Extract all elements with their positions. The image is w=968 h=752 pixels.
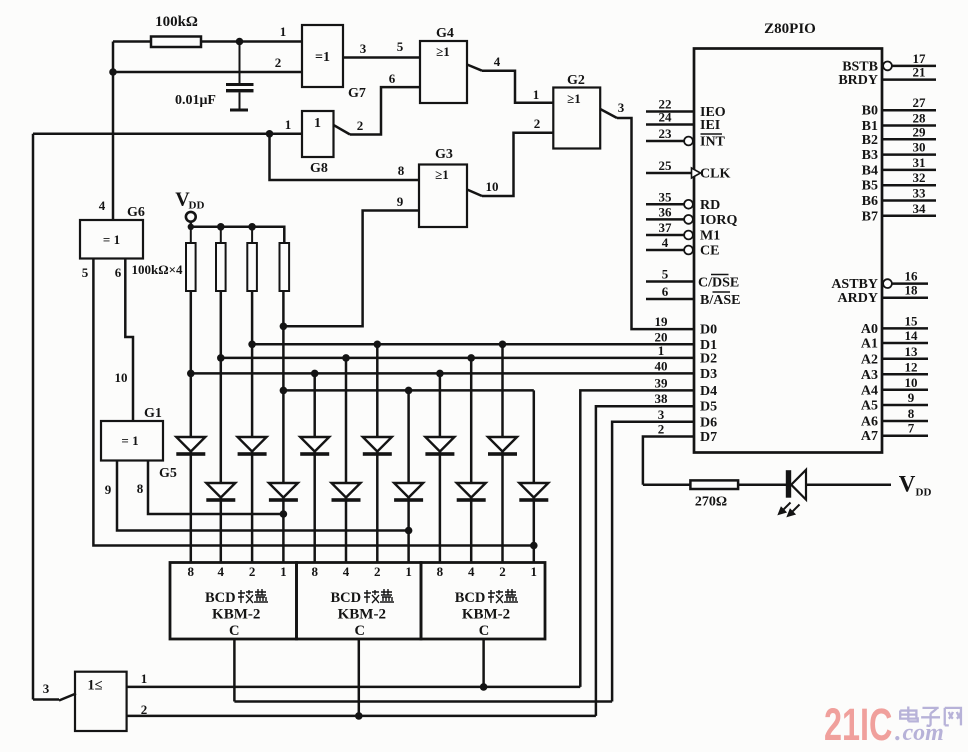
keypad2 label 拨盘 glyphs	[364, 589, 394, 603]
junction junction D2 col6	[342, 354, 350, 362]
svg-text:32: 32	[913, 170, 926, 185]
wire column wire 2 (keypad pin)	[220, 291, 223, 563]
LED D13 cathode bar	[786, 470, 791, 498]
svg-text:RD: RD	[700, 198, 720, 213]
wire G1 pin10 output up to G6 pin6	[125, 259, 133, 422]
wire node A top wire R1 to G7 pin1	[201, 40, 302, 43]
wire column wire 8 (keypad pin)	[407, 390, 410, 562]
junction junction at G8 input node	[266, 130, 274, 138]
wire PIO pin 13 A2 stub	[882, 358, 928, 361]
svg-text:21: 21	[913, 65, 926, 80]
diode D3b lower row col6	[332, 483, 361, 502]
svg-text:A1: A1	[861, 337, 878, 352]
wire bottom bus1 gate input1	[127, 686, 581, 689]
svg-text:21IC: 21IC	[824, 701, 892, 750]
svg-text:5: 5	[397, 39, 404, 54]
svg-text:14: 14	[905, 328, 919, 343]
svg-text:1: 1	[405, 564, 412, 579]
svg-text:16: 16	[905, 269, 919, 284]
resistor RP3 100k pull-up	[247, 227, 257, 291]
diode D3a upper row col5	[300, 437, 329, 456]
svg-text:KBM-2: KBM-2	[462, 607, 510, 623]
svg-text:A2: A2	[861, 352, 878, 367]
svg-text:C/DSE: C/DSE	[698, 276, 739, 291]
svg-text:Z80PIO: Z80PIO	[764, 21, 816, 37]
wire long node wire from left rail to G8 pin1	[33, 133, 302, 136]
junction junction D3 col1	[187, 370, 195, 378]
BCD keypad KBM-2 unit 1 box	[170, 563, 297, 640]
keypad1 label 拨盘 glyphs	[238, 589, 268, 603]
svg-text:8: 8	[398, 163, 405, 178]
svg-text:4: 4	[494, 54, 501, 69]
logo dianziwang glyphs	[900, 707, 961, 726]
svg-text:BCD: BCD	[455, 590, 486, 606]
wire PIO pin 4 CE stub	[646, 249, 684, 252]
wire G1 pin8 to column 4	[148, 461, 283, 515]
wire data row D1 (pin20)	[252, 343, 694, 346]
svg-text:≥1: ≥1	[567, 91, 581, 106]
wire PIO pin38 D5 stub with drop to bottom bus3	[596, 406, 694, 716]
wire G3 pin10 to G2 pin2	[482, 133, 553, 196]
svg-text:30: 30	[913, 140, 926, 155]
wire PIO pin 30 B3 stub	[882, 153, 936, 156]
svg-text:B7: B7	[862, 209, 878, 224]
svg-text:IORQ: IORQ	[700, 213, 737, 228]
svg-text:G7: G7	[348, 86, 366, 101]
wire keypad1 common stub down	[233, 639, 236, 702]
svg-text:4: 4	[343, 564, 350, 579]
junction junction D3 col5	[311, 370, 319, 378]
G2 output diagonal pin3	[600, 109, 617, 118]
wire wire LED to VDD2	[806, 483, 891, 486]
wire PIO pin3 D6 stub with drop to bottom bus2	[612, 422, 694, 702]
svg-text:27: 27	[913, 95, 927, 110]
svg-text:≥1: ≥1	[435, 167, 449, 182]
svg-text:1: 1	[280, 564, 287, 579]
wire PIO pin 25 CLK stub	[646, 172, 694, 175]
junction junction bus R1	[188, 224, 194, 230]
wire PIO pin 27 B0 stub	[882, 109, 936, 112]
diode D1b lower row col2	[206, 483, 235, 502]
wire wire R2 to LED	[738, 483, 786, 486]
xor gate G6 box	[80, 220, 143, 259]
svg-text:29: 29	[913, 124, 927, 139]
wire PIO pin 32 B5 stub	[882, 184, 936, 187]
svg-text:100kΩ×4: 100kΩ×4	[131, 262, 183, 277]
svg-text:≥1: ≥1	[436, 44, 450, 59]
junction node A dot at capacitor tap	[236, 38, 244, 46]
wire column wire 10 (keypad pin)	[470, 358, 473, 563]
svg-text:8: 8	[908, 406, 915, 421]
svg-text:KBM-2: KBM-2	[212, 607, 260, 623]
wire PIO pin 7 A7 stub	[882, 434, 928, 437]
svg-text:3: 3	[618, 100, 625, 115]
wire column wire 5 (keypad pin)	[313, 373, 316, 562]
diode D2b lower row col4	[269, 483, 298, 502]
wire PIO pin 37 M1 stub	[646, 234, 684, 237]
svg-text:2: 2	[374, 564, 381, 579]
svg-text:2: 2	[141, 702, 148, 717]
junction junction keypad3 common on bus1	[480, 683, 488, 691]
svg-text:13: 13	[905, 344, 919, 359]
junction junction G3 pin9 line on column 4	[280, 323, 288, 331]
wire column wire 6 (keypad pin)	[345, 358, 348, 563]
PIO pin 23 INT bubble	[684, 137, 693, 146]
PIO pin 4 CE bubble	[684, 246, 693, 255]
xor gate G7 box	[302, 25, 343, 87]
svg-text:10: 10	[115, 370, 128, 385]
junction junction G1 pin8 line on column 4	[280, 510, 288, 518]
wire PIO pin 31 B4 stub	[882, 169, 936, 172]
svg-text:8: 8	[137, 481, 144, 496]
svg-text:12: 12	[905, 359, 918, 374]
wire column wire 4 (keypad pin)	[282, 291, 285, 563]
svg-text:C: C	[479, 623, 489, 639]
PIO pin 25 CLK wedge	[692, 168, 701, 178]
svg-text:1: 1	[285, 117, 292, 132]
wire PIO pin 8 A6 stub	[882, 420, 928, 423]
svg-text:2: 2	[658, 422, 665, 437]
svg-text:8: 8	[188, 564, 195, 579]
wire PIO pin 15 A0 stub	[882, 327, 928, 330]
wire G9 output to left rail	[33, 698, 59, 701]
buffer gate G8 box	[302, 111, 334, 157]
wire column wire 3 (keypad pin)	[251, 291, 254, 563]
BCD keypad KBM-2 unit 3 box	[421, 563, 545, 640]
wire PIO pin 14 A1 stub	[882, 342, 928, 345]
BCD keypad KBM-2 unit 2 box	[297, 563, 422, 640]
wire PIO pin 35 RD stub	[646, 203, 684, 206]
wire PIO pin 6 B/ASE stub	[646, 298, 694, 301]
wire VDD stem	[190, 222, 193, 227]
svg-text:M1: M1	[700, 229, 720, 244]
wire PIO pin 10 A4 stub	[882, 389, 928, 392]
svg-text:A7: A7	[861, 429, 878, 444]
IC U1 Z80PIO body	[694, 49, 882, 453]
resistor RP1 100k pull-up	[186, 227, 196, 291]
svg-text:2: 2	[275, 55, 282, 70]
LED D13 emission arrows	[779, 503, 800, 516]
wire R1 left lead + node to G6 pin4 corner	[113, 40, 151, 43]
svg-text:3: 3	[43, 681, 50, 696]
junction junction D1 col7	[374, 341, 382, 349]
svg-text:3: 3	[658, 407, 665, 422]
svg-text:G1: G1	[144, 406, 162, 421]
svg-text:B2: B2	[862, 133, 878, 148]
wire PIO pin 12 A3 stub	[882, 373, 928, 376]
svg-text:CE: CE	[700, 244, 719, 259]
wire PIO pin2 D7 stub with drop to LED resistor	[643, 437, 694, 485]
svg-text:DD: DD	[916, 486, 932, 498]
svg-text:B4: B4	[862, 163, 878, 178]
PIO pin 16 ASTBY bubble	[883, 279, 892, 288]
junction junction D1 col3	[248, 341, 256, 349]
svg-text:.com: .com	[895, 717, 944, 746]
PIO pin 35 RD bubble	[684, 200, 693, 209]
wire column wire 12 (keypad pin)	[533, 390, 536, 562]
svg-text:37: 37	[659, 220, 673, 235]
svg-text:1: 1	[531, 564, 538, 579]
wire bottom bus2 keypad1 common to D6	[234, 700, 612, 703]
wire G2 pin3 down to PIO D0 pin19	[617, 118, 694, 329]
svg-text:D0: D0	[700, 323, 717, 338]
svg-text:0.01μF: 0.01μF	[175, 93, 216, 108]
svg-text:A6: A6	[861, 415, 878, 430]
wire column wire 9 (keypad pin)	[439, 373, 442, 562]
wire left rail vertical	[32, 134, 35, 700]
svg-text:B5: B5	[862, 179, 878, 194]
wire data row D4 matrix segment	[283, 389, 533, 392]
svg-text:A5: A5	[861, 399, 878, 414]
svg-text:IEI: IEI	[700, 118, 720, 133]
svg-text:3: 3	[360, 41, 367, 56]
svg-text:CLK: CLK	[700, 167, 730, 182]
svg-text:ASTBY: ASTBY	[831, 277, 878, 292]
svg-text:36: 36	[659, 204, 673, 219]
wire pull-up bus	[191, 227, 284, 243]
PIO pin 36 IORQ bubble	[684, 215, 693, 224]
or gate G3 box	[419, 165, 467, 228]
capacitor C1 0.01uF	[226, 42, 254, 112]
svg-text:1: 1	[533, 87, 540, 102]
junction junction D3 col9	[436, 370, 444, 378]
wire PIO pin 28 B1 stub	[882, 124, 936, 127]
svg-text:B0: B0	[862, 104, 878, 119]
svg-text:39: 39	[655, 375, 669, 390]
svg-text:DD: DD	[189, 199, 205, 211]
svg-text:8: 8	[437, 564, 444, 579]
svg-text:1: 1	[280, 24, 287, 39]
wire G1 pin9 to column 8	[117, 461, 409, 531]
svg-text:B1: B1	[862, 119, 878, 134]
svg-text:270Ω: 270Ω	[695, 495, 727, 510]
svg-text:2: 2	[499, 564, 506, 579]
svg-text:31: 31	[913, 155, 926, 170]
svg-text:1: 1	[314, 116, 321, 131]
wire PIO pin 36 IORQ stub	[646, 218, 684, 221]
svg-text:C: C	[355, 623, 365, 639]
svg-text:9: 9	[397, 194, 404, 209]
svg-text:2: 2	[534, 116, 541, 131]
svg-text:24: 24	[659, 110, 673, 125]
svg-text:9: 9	[105, 482, 112, 497]
diode D5b lower row col10	[457, 483, 486, 502]
G9 output diagonal pin3	[59, 694, 76, 701]
wire PIO pin 29 B2 stub	[882, 138, 936, 141]
svg-text:1: 1	[141, 671, 148, 686]
wire PIO pin 34 B7 stub	[882, 215, 936, 218]
diode D6b lower row col12	[519, 483, 548, 502]
G3 output diagonal pin10	[467, 190, 482, 197]
svg-text:33: 33	[913, 186, 927, 201]
G4 output diagonal pin4	[467, 65, 482, 71]
wire vertical from node corner down to G6 pin 4	[112, 42, 115, 221]
svg-text:INT: INT	[700, 135, 726, 150]
svg-text:5: 5	[662, 267, 669, 282]
wire G3 pin9 wire from pull-up column 4	[283, 211, 419, 327]
junction junction D2 col10	[467, 354, 475, 362]
resistor RP4 100k pull-up	[280, 227, 290, 291]
wire G8 pin2 to G4 pin6	[350, 87, 420, 134]
svg-text:BCD: BCD	[330, 590, 361, 606]
wire data row D2 (pin1)	[221, 357, 694, 360]
wire wire D7 to resistor R2	[643, 483, 691, 486]
svg-text:G4: G4	[436, 26, 454, 41]
svg-text:9: 9	[908, 390, 915, 405]
svg-text:B/ASE: B/ASE	[700, 293, 740, 308]
svg-text:A4: A4	[861, 383, 878, 398]
wire PIO pin 16 ASTBY stub	[892, 282, 928, 285]
wire G7 output pin3 to G4 pin5	[343, 56, 420, 59]
wire column wire 1 (keypad pin)	[190, 291, 193, 563]
svg-text:2: 2	[249, 564, 256, 579]
svg-text:5: 5	[82, 265, 89, 280]
wire bottom bus3 gate input2	[127, 715, 596, 718]
wire PIO pin 17 BSTB stub	[892, 65, 936, 68]
junction junction D4 col8	[405, 387, 413, 395]
svg-text:G2: G2	[567, 73, 585, 88]
svg-text:D3: D3	[700, 367, 717, 382]
svg-text:2: 2	[357, 118, 364, 133]
svg-text:B3: B3	[862, 148, 878, 163]
junction junction D2 col2	[217, 354, 225, 362]
svg-text:4: 4	[218, 564, 225, 579]
VDD terminal circle	[186, 212, 196, 222]
PIO pin 37 M1 bubble	[684, 231, 693, 240]
svg-text:=1: =1	[315, 50, 330, 65]
svg-text:V: V	[899, 472, 916, 497]
svg-text:D7: D7	[700, 430, 717, 445]
LED D13 triangle	[791, 470, 806, 500]
junction junction keypad2 common on bus2	[355, 712, 363, 720]
svg-text:G5: G5	[159, 466, 177, 481]
resistor R2 270Ω body	[690, 480, 738, 489]
wire PIO pin39 D4 stub with drop to bottom bus1	[580, 390, 694, 687]
svg-text:6: 6	[389, 71, 396, 86]
wire G4 pin4 to G2 pin1	[482, 71, 553, 103]
svg-text:23: 23	[659, 126, 673, 141]
svg-text:D5: D5	[700, 400, 717, 415]
svg-text:40: 40	[655, 358, 668, 373]
svg-text:25: 25	[659, 158, 673, 173]
svg-text:C: C	[229, 623, 239, 639]
wire PIO pin 33 B6 stub	[882, 199, 936, 202]
diode D5a upper row col9	[425, 437, 454, 456]
svg-text:BCD: BCD	[205, 590, 236, 606]
svg-text:1≤: 1≤	[87, 678, 102, 694]
junction junction G1 pin9 line on column 8	[405, 527, 413, 535]
svg-text:6: 6	[662, 284, 669, 299]
wire keypad2 common stub down	[358, 639, 361, 716]
G8 output diagonal pin2	[334, 125, 351, 135]
resistor R1 100kΩ body	[151, 37, 201, 48]
svg-text:1: 1	[658, 343, 665, 358]
or gate G9 (bottom) box	[75, 672, 127, 731]
junction junction D4 col4	[280, 387, 288, 395]
svg-text:19: 19	[655, 314, 669, 329]
svg-text:= 1: = 1	[121, 433, 138, 448]
svg-text:18: 18	[905, 283, 919, 298]
xor gate G1 box	[101, 421, 163, 461]
svg-text:D2: D2	[700, 351, 717, 366]
svg-text:10: 10	[486, 179, 499, 194]
wire PIO pin 18 ARDY stub	[882, 296, 928, 299]
svg-text:7: 7	[908, 421, 915, 436]
junction junction bus R3	[248, 223, 256, 231]
overline on INT	[701, 133, 723, 135]
svg-text:8: 8	[311, 564, 318, 579]
svg-text:10: 10	[905, 375, 918, 390]
svg-text:4: 4	[662, 235, 669, 250]
svg-text:G6: G6	[127, 205, 145, 220]
svg-text:6: 6	[115, 265, 122, 280]
wire column wire 7 (keypad pin)	[376, 344, 379, 562]
svg-text:ARDY: ARDY	[838, 291, 878, 306]
svg-text:D6: D6	[700, 415, 717, 430]
svg-text:= 1: = 1	[103, 232, 120, 247]
wire branch from G8 node down to G3 pin8	[270, 134, 420, 180]
diode D6a upper row col11	[488, 437, 517, 456]
resistor RP2 100k pull-up	[216, 227, 226, 291]
svg-text:35: 35	[659, 189, 673, 204]
svg-text:B6: B6	[862, 194, 878, 209]
svg-text:BRDY: BRDY	[838, 73, 878, 88]
svg-text:4: 4	[468, 564, 475, 579]
svg-text:38: 38	[655, 391, 669, 406]
wire wire to G7 pin 2	[113, 71, 302, 74]
or gate G4 box	[420, 41, 467, 103]
svg-text:34: 34	[913, 201, 927, 216]
or gate G2 box	[553, 88, 600, 149]
wire column wire 11 (keypad pin)	[501, 344, 504, 562]
svg-text:A3: A3	[861, 368, 878, 383]
wire PIO pin 22 IEO stub	[646, 110, 694, 113]
junction junction at G7 pin2 branch	[109, 68, 117, 76]
wire PIO pin 21 BRDY stub	[882, 78, 936, 81]
svg-text:100kΩ: 100kΩ	[155, 14, 198, 30]
PIO pin 17 BSTB bubble	[883, 62, 892, 71]
svg-text:G8: G8	[310, 161, 328, 176]
svg-text:KBM-2: KBM-2	[338, 607, 386, 623]
wire PIO pin 24 IEI stub	[646, 123, 694, 126]
wire PIO pin 23 INT stub	[646, 140, 684, 143]
svg-text:4: 4	[99, 198, 106, 213]
svg-text:D4: D4	[700, 384, 717, 399]
diode D2a upper row col3	[238, 437, 267, 456]
junction junction G6 pin5 line on column 12	[530, 542, 538, 550]
svg-text:28: 28	[913, 111, 927, 126]
wire data row D3 (pin40)	[191, 372, 694, 375]
diode D4a upper row col7	[363, 437, 392, 456]
wire keypad3 common stub down	[482, 639, 485, 687]
junction junction D1 col11	[499, 341, 507, 349]
diode D1a upper row col1	[176, 437, 205, 456]
svg-text:A0: A0	[861, 322, 878, 337]
wire PIO pin 9 A5 stub	[882, 404, 928, 407]
svg-text:G3: G3	[435, 147, 453, 162]
wire G6 pin5 down-left long wire	[93, 259, 533, 546]
diode D4b lower row col8	[394, 483, 423, 502]
wire PIO pin 5 C/DSE stub	[646, 280, 694, 283]
junction junction bus R2	[217, 223, 225, 231]
keypad3 label 拨盘 glyphs	[488, 589, 518, 603]
svg-text:15: 15	[905, 313, 919, 328]
